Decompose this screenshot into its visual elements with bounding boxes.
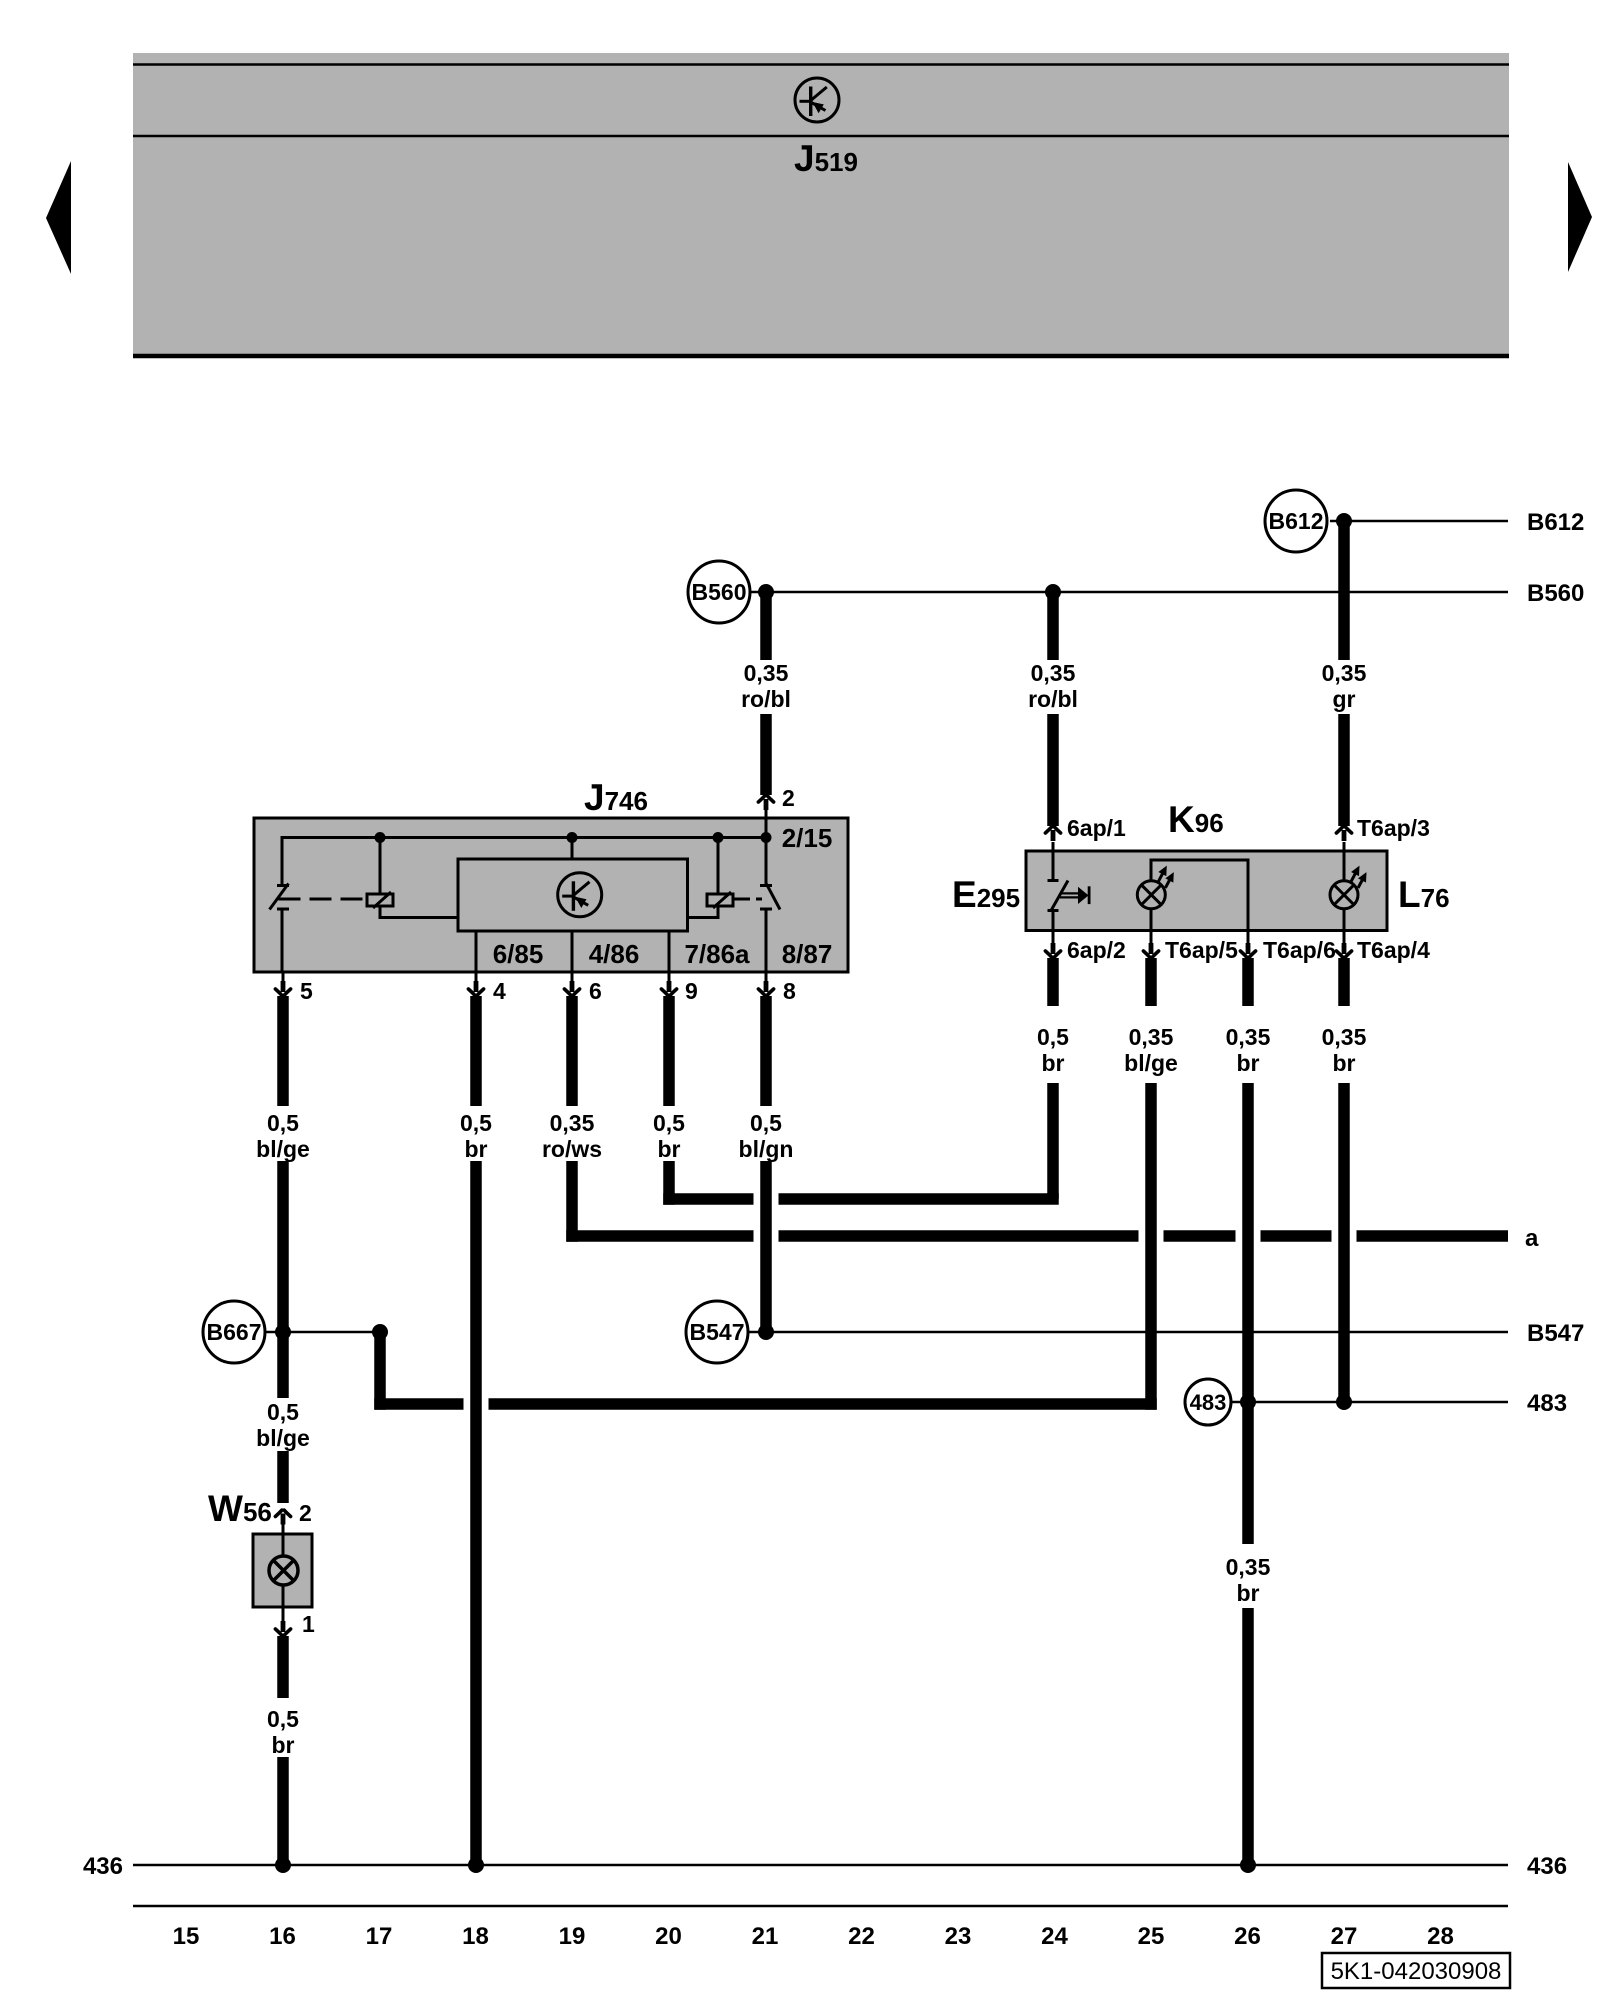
- node B612 circle: [1265, 490, 1327, 552]
- diagram id box: [1322, 1953, 1510, 1988]
- svg-text:7/86a: 7/86a: [684, 939, 750, 969]
- svg-text:0,35: 0,35: [1226, 1024, 1271, 1050]
- svg-text:0,5: 0,5: [267, 1706, 299, 1732]
- junction dot B560/wire21: [758, 584, 774, 600]
- switch E295 actuator: [1060, 892, 1080, 894]
- wire 0,35 ro/bl to J746 pin2: [760, 592, 772, 660]
- pin 8 connector: [765, 972, 768, 983]
- svg-text:0,35: 0,35: [1226, 1554, 1271, 1580]
- svg-text:24: 24: [1041, 1923, 1068, 1950]
- wire label 0,35 gr (27): [1322, 660, 1367, 712]
- svg-text:B612: B612: [1527, 509, 1584, 536]
- switch 1 blade: [270, 884, 289, 910]
- svg-text:br: br: [1042, 1050, 1065, 1076]
- track numbers: [173, 1923, 1454, 1950]
- electronics symbol: [558, 873, 602, 917]
- pin 2 connector: [758, 796, 773, 810]
- node 483 circle: [1185, 1379, 1231, 1425]
- svg-text:B560: B560: [692, 579, 747, 605]
- pin 6ap/1 connector: [1045, 827, 1060, 841]
- svg-text:436: 436: [83, 1853, 123, 1880]
- ground rail 436: [133, 1864, 1508, 1867]
- svg-text:0,35: 0,35: [550, 1110, 595, 1136]
- svg-text:26: 26: [1234, 1923, 1261, 1950]
- wire label 0,5 br (24): [1037, 1024, 1069, 1076]
- wire 0,5 br from J746 pin4 to 436: [470, 996, 482, 1106]
- K96 LED bottom lead: [1150, 909, 1153, 931]
- switch E295 blade: [1051, 881, 1069, 912]
- relay unit J746 box: [254, 818, 848, 972]
- pin 6/85 lead: [475, 931, 478, 972]
- pin 6 connector: [571, 972, 574, 983]
- svg-text:9: 9: [685, 978, 698, 1004]
- L76 LED bottom lead: [1343, 909, 1346, 931]
- svg-text:5: 5: [300, 978, 313, 1004]
- svg-text:bl/gn: bl/gn: [739, 1136, 794, 1162]
- bottom frame line: [133, 1905, 1508, 1908]
- junction dot 2/15 coil1: [375, 832, 386, 843]
- svg-text:2: 2: [782, 785, 795, 811]
- wire label 0,35 br (27): [1322, 1024, 1367, 1076]
- junction dot 436/wire26: [1240, 1857, 1256, 1873]
- pin 5 connector: [282, 972, 285, 983]
- control unit J519 band: [133, 53, 1509, 358]
- svg-text:4: 4: [493, 978, 506, 1004]
- svg-text:8: 8: [783, 978, 796, 1004]
- svg-text:28: 28: [1427, 1923, 1454, 1950]
- wire label 0,5 bl/ge (16): [256, 1110, 310, 1162]
- junction dot 483/wire27: [1336, 1394, 1352, 1410]
- svg-text:18: 18: [462, 1923, 489, 1950]
- J519 band middle line: [133, 135, 1509, 138]
- svg-text:5K1-042030908: 5K1-042030908: [1331, 1958, 1502, 1985]
- svg-text:br: br: [272, 1732, 295, 1758]
- svg-text:6ap/1: 6ap/1: [1067, 815, 1126, 841]
- svg-text:4/86: 4/86: [589, 939, 640, 969]
- junction dot 2/15 pin2: [761, 832, 772, 843]
- switch 1 contacts: [277, 884, 289, 887]
- svg-text:0,5: 0,5: [750, 1110, 782, 1136]
- node B547 line: [748, 1331, 1508, 1334]
- svg-text:17: 17: [366, 1923, 393, 1950]
- pin T6ap/4 connector: [1343, 931, 1346, 946]
- pin 4 connector: [475, 972, 478, 983]
- svg-text:0,5: 0,5: [460, 1110, 492, 1136]
- svg-text:0,5: 0,5: [267, 1399, 299, 1425]
- svg-text:0,5: 0,5: [267, 1110, 299, 1136]
- svg-text:0,5: 0,5: [1037, 1024, 1069, 1050]
- junction dot 2/15 coil2: [713, 832, 724, 843]
- svg-text:27: 27: [1331, 1923, 1358, 1950]
- junction dot B560/wire24: [1045, 584, 1061, 600]
- svg-text:0,5: 0,5: [653, 1110, 685, 1136]
- svg-text:0,35: 0,35: [744, 660, 789, 686]
- svg-text:483: 483: [1527, 1390, 1567, 1417]
- J746 pin2 internal lead: [765, 808, 768, 884]
- pin T6ap/6 connector: [1247, 931, 1250, 946]
- wire 0,35 ro/bl to K96 6ap/1: [1047, 592, 1059, 660]
- pin 7/86a lead: [668, 931, 671, 972]
- svg-text:0,35: 0,35: [1129, 1024, 1174, 1050]
- switch E295 lower lead: [1052, 911, 1055, 931]
- svg-text:br: br: [658, 1136, 681, 1162]
- wire label 0,35 ro/ws (19): [542, 1110, 602, 1162]
- wire label 0,5 br (20): [653, 1110, 685, 1162]
- junction dot B547/wire21: [758, 1324, 774, 1340]
- svg-text:23: 23: [945, 1923, 972, 1950]
- svg-text:2/15: 2/15: [782, 823, 833, 853]
- switch 2 lower lead to pin8: [765, 909, 768, 972]
- switch E295 upper lead: [1052, 842, 1055, 880]
- wire 0,35 ro/ws from J746 pin6: [566, 996, 578, 1106]
- wire 0,35 gr to K96 T6ap/3: [1338, 521, 1350, 660]
- svg-text:25: 25: [1138, 1923, 1165, 1950]
- pin T6ap/3 connector: [1336, 827, 1351, 841]
- svg-text:0,35: 0,35: [1322, 660, 1367, 686]
- svg-text:0,35: 0,35: [1031, 660, 1076, 686]
- svg-text:16: 16: [269, 1923, 296, 1950]
- switch 1 lower lead to pin5: [281, 909, 284, 972]
- W56 lower lead: [282, 1584, 285, 1622]
- svg-text:15: 15: [173, 1923, 200, 1950]
- svg-text:ro/bl: ro/bl: [741, 686, 791, 712]
- svg-text:ro/bl: ro/bl: [1028, 686, 1078, 712]
- K96 LED top link to T6ap/6: [1151, 860, 1248, 931]
- node B560 line: [750, 591, 1508, 594]
- svg-text:B547: B547: [1527, 1320, 1584, 1347]
- wire label 0,5 br below W56: [267, 1706, 299, 1758]
- svg-text:bl/ge: bl/ge: [256, 1136, 310, 1162]
- svg-text:6/85: 6/85: [493, 939, 544, 969]
- svg-text:B560: B560: [1527, 580, 1584, 607]
- control unit K96 box: [1026, 851, 1387, 931]
- wire pin9 to 6ap/2 horizontal: [663, 1193, 753, 1205]
- svg-text:6ap/2: 6ap/2: [1067, 937, 1126, 963]
- junction dot 436/wire16: [275, 1857, 291, 1873]
- junction dot B667/branch: [372, 1324, 388, 1340]
- svg-text:br: br: [1333, 1050, 1356, 1076]
- svg-text:br: br: [1237, 1580, 1260, 1606]
- svg-text:8/87: 8/87: [782, 939, 833, 969]
- wire label 0,35 ro/bl (21): [741, 660, 791, 712]
- W56 pin2 connector: [275, 1510, 290, 1524]
- lamp W56 box: [253, 1534, 312, 1607]
- svg-text:2: 2: [299, 1500, 312, 1526]
- svg-text:21: 21: [752, 1923, 779, 1950]
- junction dot B612/wire: [1336, 513, 1352, 529]
- switch 2 contacts: [760, 884, 772, 887]
- svg-text:T6ap/6: T6ap/6: [1263, 937, 1336, 963]
- svg-text:a: a: [1525, 1225, 1539, 1252]
- wire 0,35 bl/ge from K96 T6ap/5: [1145, 958, 1157, 1006]
- K96 LED lamp: [1137, 864, 1177, 909]
- svg-text:B547: B547: [690, 1319, 745, 1345]
- svg-text:19: 19: [559, 1923, 586, 1950]
- svg-text:22: 22: [848, 1923, 875, 1950]
- wire label 0,35 bl/ge (25): [1124, 1024, 1178, 1076]
- pin 6ap/2 connector: [1052, 931, 1055, 946]
- wire 0,5 bl/ge from J746 pin5: [277, 996, 289, 1106]
- svg-text:436: 436: [1527, 1853, 1567, 1880]
- pin 9 connector: [668, 972, 671, 983]
- wire B667 branch vertical: [374, 1332, 386, 1410]
- wire label 0,5 bl/ge below B667: [256, 1399, 310, 1451]
- svg-text:6: 6: [589, 978, 602, 1004]
- svg-text:ro/ws: ro/ws: [542, 1136, 602, 1162]
- svg-text:1: 1: [302, 1611, 315, 1637]
- relay coil 2: [717, 838, 720, 895]
- linkage dashed coil2-switch2: [733, 898, 762, 901]
- svg-text:483: 483: [1190, 1390, 1227, 1415]
- node B667 circle: [203, 1301, 265, 1363]
- J519 internal symbol: [795, 78, 839, 122]
- wire 0,35 br from K96 T6ap/6 to 436: [1242, 958, 1254, 1006]
- W56 pin1 connector: [275, 1621, 290, 1635]
- pin 4/86 lead: [571, 931, 574, 972]
- J746 internal 2/15 bus: [282, 838, 766, 885]
- wire a horizontal: [566, 1230, 753, 1242]
- svg-text:B612: B612: [1269, 508, 1324, 534]
- relay coil 1: [379, 838, 382, 895]
- left continuation arrow: [46, 161, 71, 274]
- wire label 0,35 ro/bl (24): [1028, 660, 1078, 712]
- svg-text:0,35: 0,35: [1322, 1024, 1367, 1050]
- svg-text:br: br: [465, 1136, 488, 1162]
- W56 lamp symbol: [269, 1556, 298, 1585]
- svg-text:B667: B667: [207, 1319, 262, 1345]
- wire B667 branch horizontal: [374, 1398, 463, 1410]
- svg-text:gr: gr: [1333, 686, 1356, 712]
- electronics inner box: [571, 838, 574, 860]
- wire label 0,35 br (26): [1226, 1024, 1271, 1076]
- switch 2 blade: [767, 884, 781, 910]
- node B612 line: [1330, 520, 1508, 523]
- svg-text:T6ap/5: T6ap/5: [1165, 937, 1238, 963]
- wire 0,5 br from W56 pin1 to 436: [277, 1636, 289, 1698]
- svg-text:br: br: [1237, 1050, 1260, 1076]
- junction dot 436/wire18: [468, 1857, 484, 1873]
- wire 0,5 bl/gn from J746 pin8 to B547: [760, 996, 772, 1106]
- W56 upper lead: [282, 1523, 285, 1557]
- node B560 circle: [688, 561, 750, 623]
- linkage dashed switch1-coil1: [279, 898, 368, 901]
- svg-text:T6ap/3: T6ap/3: [1357, 815, 1430, 841]
- wire 0,5 br from J746 pin9: [663, 996, 675, 1106]
- right continuation arrow: [1568, 162, 1592, 272]
- J519 band top line: [133, 63, 1509, 66]
- pin T6ap/5 connector: [1150, 931, 1153, 946]
- J519 band bottom line: [133, 354, 1509, 359]
- svg-text:T6ap/4: T6ap/4: [1357, 937, 1430, 963]
- wire 0,5 br to K96 6ap/2: [1047, 1083, 1059, 1199]
- node 483 line: [1231, 1401, 1508, 1404]
- switch E295 contacts: [1048, 879, 1059, 882]
- junction dot B667/wire16: [275, 1324, 291, 1340]
- node B547 circle: [686, 1301, 748, 1363]
- wire 0,35 br from K96 T6ap/4 to 483: [1338, 958, 1350, 1006]
- wire label 0,5 bl/gn (21): [739, 1110, 794, 1162]
- svg-text:bl/ge: bl/ge: [1124, 1050, 1178, 1076]
- node B667 line: [265, 1331, 380, 1334]
- L76 LED lamp: [1330, 864, 1370, 909]
- wire label 0,5 br (18): [460, 1110, 492, 1162]
- svg-text:20: 20: [655, 1923, 682, 1950]
- junction dot 483/wire26: [1240, 1394, 1256, 1410]
- L76 LED top lead: [1343, 842, 1346, 881]
- svg-text:bl/ge: bl/ge: [256, 1425, 310, 1451]
- wire label 0,35 br below 483: [1226, 1554, 1271, 1606]
- junction dot 2/15 electronics: [567, 832, 578, 843]
